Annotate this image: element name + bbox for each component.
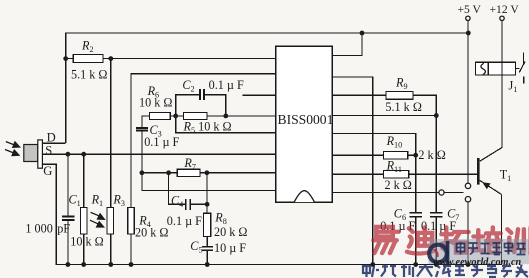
svg-text:10 k Ω: 10 k Ω <box>70 235 103 249</box>
svg-text:S: S <box>45 144 52 158</box>
svg-text:5.1 k Ω: 5.1 k Ω <box>385 100 421 114</box>
svg-text:+5 V: +5 V <box>458 3 482 16</box>
svg-text:20 k Ω: 20 k Ω <box>214 225 247 239</box>
svg-text:C1: C1 <box>69 192 81 208</box>
svg-text:2 k: 2 k <box>418 148 434 162</box>
svg-text:+12 V: +12 V <box>490 3 520 16</box>
svg-text:20 k Ω: 20 k Ω <box>135 226 168 240</box>
svg-text:J1: J1 <box>509 79 518 95</box>
svg-text:C4: C4 <box>171 194 183 210</box>
svg-text:pF: pF <box>57 222 70 236</box>
svg-text:C2: C2 <box>182 78 194 94</box>
svg-text:C5: C5 <box>190 239 202 255</box>
svg-text:0.1 µ F: 0.1 µ F <box>144 135 179 149</box>
svg-text:2 k Ω: 2 k Ω <box>385 178 412 192</box>
svg-text:R7: R7 <box>183 156 196 172</box>
svg-text:1 000: 1 000 <box>25 222 52 236</box>
svg-text:R10: R10 <box>386 134 403 150</box>
svg-text:5.1 k Ω: 5.1 k Ω <box>71 68 107 82</box>
svg-text:R9: R9 <box>395 76 408 92</box>
svg-text:10 k Ω: 10 k Ω <box>139 96 172 110</box>
svg-text:R2: R2 <box>81 39 94 55</box>
svg-text:G: G <box>43 164 52 178</box>
svg-text:R3: R3 <box>112 192 125 208</box>
svg-text:R5 10 k Ω: R5 10 k Ω <box>183 120 232 136</box>
svg-text:R1: R1 <box>91 192 104 208</box>
svg-text:R8: R8 <box>214 211 227 227</box>
svg-text:BISS0001: BISS0001 <box>278 112 334 127</box>
svg-text:0.1 µ F: 0.1 µ F <box>209 78 244 92</box>
svg-text:R11: R11 <box>386 158 402 174</box>
svg-text:10 µ F: 10 µ F <box>214 241 246 255</box>
svg-text:Ω: Ω <box>437 148 446 162</box>
svg-text:0.1 µ F: 0.1 µ F <box>167 214 202 228</box>
svg-text:D: D <box>47 130 56 144</box>
svg-text:T1: T1 <box>500 167 512 183</box>
